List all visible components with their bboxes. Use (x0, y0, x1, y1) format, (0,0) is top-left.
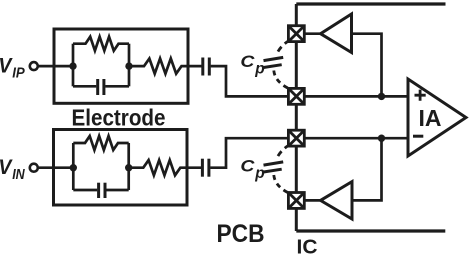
wire buffer2 input up to node (352, 138, 382, 200)
svg-text:IN: IN (12, 167, 25, 183)
capacitor Cs2 (series) (202, 159, 209, 177)
svg-text:V: V (0, 54, 13, 78)
resistor Rs2 (series) (129, 160, 201, 175)
terminal VIN (30, 164, 38, 172)
wire loop2 right vertical (127, 143, 130, 190)
label IC (297, 236, 318, 255)
node VIP label (0, 54, 25, 82)
wire pad4 to buffer2 tip (304, 199, 321, 202)
buffer U1 (321, 14, 352, 53)
label Electrode (72, 104, 166, 130)
wire pad2 to IA+ (304, 95, 408, 98)
capacitor Ce2 (parallel, bottom rail) (73, 183, 128, 198)
wire cap2 to pad3 (210, 138, 288, 168)
wire loop1 right vertical (128, 44, 131, 87)
IC boundary bottom edge (296, 229, 445, 232)
IA plus sign (415, 90, 426, 101)
svg-text:IA: IA (419, 105, 442, 131)
electrode box 2 (54, 130, 188, 206)
pad 3 (bond pad) (288, 130, 304, 146)
wire pad1 to buffer1 tip (304, 32, 321, 35)
resistor Re1 (parallel, top rail) (73, 37, 129, 51)
pad 4 (bond pad) (288, 193, 304, 209)
svg-text:C: C (240, 156, 255, 175)
capacitor Cp top (parasitic, dashed leads) (263, 40, 290, 88)
capacitor Ce1 (parallel, bottom rail) (73, 79, 129, 95)
terminal VIP (30, 62, 38, 70)
svg-text:IP: IP (12, 66, 25, 82)
label Cp bottom (240, 156, 264, 182)
wire loop2 left vertical (72, 143, 75, 190)
resistor Re2 (parallel, top rail) (73, 136, 128, 150)
IA minus sign (413, 135, 423, 138)
capacitor Cp bottom (parasitic, dashed leads) (263, 145, 290, 193)
node dot buffer1 tap (378, 93, 385, 100)
svg-text:V: V (0, 155, 13, 179)
wire VIN to electrode2 (38, 166, 73, 169)
pad 1 (bond pad) (288, 26, 304, 42)
label PCB (217, 220, 265, 248)
svg-text:Electrode: Electrode (72, 104, 166, 130)
node dot right 2 (125, 164, 132, 171)
resistor Rs1 (series) (129, 58, 202, 73)
svg-text:PCB: PCB (217, 220, 265, 248)
wire buffer1 input down to node (352, 34, 382, 97)
IC boundary top edge (296, 2, 445, 5)
buffer U2 (321, 182, 353, 219)
electrode box 1 (54, 29, 188, 103)
wire cap1 to pad2 (211, 66, 289, 96)
node VIN label (0, 155, 25, 183)
svg-text:C: C (240, 52, 255, 71)
svg-text:IC: IC (297, 236, 318, 255)
label Cp top (240, 52, 264, 78)
pad 2 (bond pad) (288, 88, 304, 104)
op-amp IA (408, 79, 466, 156)
wire pad3 to IA- (304, 137, 408, 140)
label IA (419, 105, 442, 131)
node dot right 1 (125, 62, 132, 69)
wire loop1 left vertical (72, 44, 75, 87)
svg-text:p: p (254, 61, 264, 78)
node dot buffer2 tap (378, 135, 385, 142)
svg-text:p: p (254, 165, 264, 182)
wire VIP to electrode1 (38, 65, 73, 68)
capacitor Cs1 (series) (203, 58, 210, 76)
IC boundary left edge (295, 4, 298, 231)
node dot left 1 (69, 62, 76, 69)
node dot left 2 (70, 164, 77, 171)
